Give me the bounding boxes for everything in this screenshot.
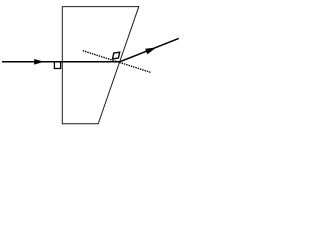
arrowhead on incident ray [34, 59, 44, 65]
refracted exit ray [120, 38, 179, 61]
arrowhead on exit ray [145, 48, 156, 55]
dotted normal line at slanted surface [83, 51, 151, 73]
incident + internal ray [2, 61, 120, 63]
prism (glass block) outline [62, 7, 139, 124]
right-angle marker at exit between surface and normal [113, 52, 120, 59]
right-angle marker at entry (normal incidence) [54, 62, 60, 69]
